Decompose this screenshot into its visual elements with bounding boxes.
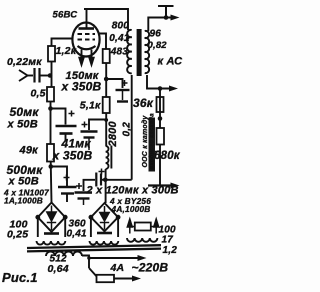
arrow mains 2 — [132, 276, 141, 282]
wire NFB arrow line — [148, 184, 174, 186]
resistor screen top — [103, 49, 110, 63]
node return junction — [158, 86, 163, 91]
capacitor 50мк bottom stub — [65, 135, 67, 142]
capacitor 150мк plate — [116, 89, 130, 91]
power transformer core — [27, 245, 161, 251]
svg-text:0,82: 0,82 — [148, 40, 168, 51]
capacitor 120мк A bottom stub — [83, 200, 85, 206]
svg-text:4А,1000В: 4А,1000В — [111, 204, 151, 214]
wire 5,1к to choke — [105, 113, 107, 146]
svg-text:х 350В: х 350В — [61, 80, 102, 94]
capacitor 41мк plates — [81, 130, 98, 132]
node 50мк junction — [48, 106, 53, 111]
resistor 1,2к — [48, 46, 55, 62]
tube anode bar — [79, 27, 95, 30]
svg-text:ООС к катоду: ООС к катоду — [141, 115, 149, 168]
svg-text:х 50В: х 50В — [7, 119, 38, 131]
bridge rectifier D1 diamond — [38, 203, 65, 232]
capacitor 41мк plus — [82, 122, 88, 128]
tube grid 2 dashes — [78, 39, 96, 41]
svg-text:0,25: 0,25 — [7, 229, 28, 241]
output transformer core — [137, 29, 142, 76]
bridge2 left lead — [90, 217, 92, 237]
svg-text:50мк: 50мк — [10, 105, 40, 119]
tube heater arrow left — [79, 56, 84, 66]
arrow to speaker — [171, 15, 180, 21]
node input junction — [48, 73, 53, 78]
tube heater lead left — [81, 50, 83, 60]
bridge2 minus bar — [97, 232, 112, 235]
hum balance resistor — [130, 226, 156, 228]
node bridge2 left — [89, 215, 94, 220]
wire junction to 41мк cap — [89, 120, 106, 131]
node mains junction — [87, 256, 91, 260]
wire choke to PS junction — [105, 169, 107, 203]
svg-text:17: 17 — [162, 235, 174, 246]
wire 120мк B right lead — [102, 179, 106, 181]
capacitor 150мк plus — [122, 80, 128, 86]
node PS junction — [103, 178, 108, 183]
tube heater arrow right — [89, 56, 94, 66]
svg-text:~220В: ~220В — [132, 261, 169, 275]
arrow mains 1 — [138, 255, 147, 261]
wire resistor to input junction — [51, 62, 53, 88]
wire junction to 50мк cap — [51, 109, 66, 125]
node bridge1 left — [35, 215, 40, 220]
wire 49к to bridge — [50, 162, 53, 203]
svg-text:0,64: 0,64 — [48, 263, 69, 275]
wire to 150мк junction — [105, 63, 107, 97]
capacitor 0,22мк plates — [33, 68, 35, 83]
fuse 4А — [97, 275, 115, 282]
capacitor 41мк bottom stub — [88, 139, 90, 151]
node NFB junction — [158, 116, 163, 121]
bridge1 right lead — [64, 217, 66, 237]
resistor 36к — [157, 97, 164, 112]
resistor 680к — [157, 128, 165, 145]
wire PS junction to B+ riser — [105, 179, 131, 181]
arrow speaker return — [169, 86, 178, 92]
capacitor 500мк plus — [64, 175, 70, 181]
label входного каскада band — [149, 118, 156, 172]
wire NFB tick — [154, 151, 161, 153]
tube cathode arc — [78, 46, 96, 49]
wire mains line 1 — [89, 257, 140, 259]
capacitor 50мк plates — [56, 125, 77, 128]
svg-text:5,1к: 5,1к — [80, 100, 101, 112]
wire tube screen to resistor — [99, 34, 106, 50]
capacitor 500мк bottom stub — [66, 195, 68, 203]
choke core line — [110, 146, 112, 169]
svg-text:483: 483 — [110, 47, 129, 58]
svg-text:36к: 36к — [133, 96, 154, 110]
wire cap to junction — [41, 75, 52, 77]
arrow NFB out — [171, 183, 180, 189]
capacitor 120мк B plus — [99, 169, 105, 175]
svg-text:49к: 49к — [19, 145, 40, 157]
tube grid 1 dashes — [78, 33, 96, 35]
heater winding W3 — [127, 238, 157, 242]
capacitor 500мк plates — [58, 186, 77, 188]
primary winding 512 — [46, 252, 82, 257]
svg-text:800: 800 — [112, 21, 130, 32]
svg-text:х 350В: х 350В — [52, 149, 93, 163]
wire 36к to 680к — [159, 89, 161, 129]
wire grid to resistor — [52, 39, 73, 47]
wire 120мк A top lead — [84, 180, 96, 191]
wire 0,5 down — [50, 102, 52, 145]
heater lead left arrow — [127, 219, 132, 234]
wire secondary top to output — [148, 18, 172, 32]
bridge1 left lead — [37, 217, 39, 237]
svg-text:1,2к: 1,2к — [56, 45, 77, 57]
output transformer secondary winding — [145, 31, 149, 73]
capacitor 120мк B plates — [95, 173, 97, 187]
resistor 5,1к — [103, 97, 110, 113]
power transformer T2 winding W1 — [37, 241, 66, 245]
wire 680к down to NFB arrow — [159, 145, 161, 186]
wire top rail anode to transformer — [84, 9, 128, 30]
output transformer T1 primary winding — [127, 30, 132, 73]
svg-text:56ВС: 56ВС — [53, 10, 78, 21]
svg-text:х 50В: х 50В — [8, 176, 39, 188]
capacitor 150мк bottom bar — [117, 100, 128, 102]
tube heater lead right — [91, 50, 93, 60]
capacitor 120мк A plus — [76, 183, 82, 189]
capacitor 120мк A plates — [75, 191, 93, 193]
svg-text:96: 96 — [150, 29, 162, 40]
wire B+ riser — [131, 75, 133, 180]
wire primary right lead — [82, 256, 89, 269]
bridge rectifier D2 diamond — [91, 203, 118, 231]
wire junction to 150мк cap — [106, 79, 122, 88]
tube V1 56ВС envelope — [72, 23, 99, 57]
svg-text:Рис.1: Рис.1 — [2, 270, 38, 285]
node 41мк junction — [104, 118, 108, 122]
wire mains line 2 — [99, 278, 135, 280]
node bridge1 right — [63, 215, 68, 220]
svg-text:0,22мк: 0,22мк — [7, 56, 42, 68]
svg-text:к АС: к АС — [158, 56, 184, 68]
bridge1 minus bar — [44, 232, 59, 235]
switch blade — [89, 268, 99, 279]
svg-text:входного каскада: входного каскада — [150, 113, 156, 170]
svg-text:0,5: 0,5 — [31, 88, 46, 100]
diode D1 symbol — [47, 206, 56, 231]
svg-text:1А,1000В: 1А,1000В — [4, 196, 43, 206]
capacitor 150мк lower lead — [122, 91, 124, 100]
bridge2 right lead — [117, 217, 119, 237]
power transformer winding W2 — [90, 241, 119, 245]
resistor 49к — [47, 144, 54, 162]
svg-text:0,41: 0,41 — [109, 33, 130, 44]
svg-text:2 х 120мк х 300В: 2 х 120мк х 300В — [86, 185, 179, 197]
heater lead right arrow — [154, 219, 159, 234]
svg-text:0,41: 0,41 — [67, 229, 88, 240]
choke L1 winding — [106, 146, 109, 169]
svg-text:4А: 4А — [110, 262, 125, 274]
wire secondary bottom return — [147, 75, 171, 89]
svg-text:2800: 2800 — [107, 121, 119, 148]
diode D2 symbol — [100, 206, 109, 230]
node 150мк junction — [104, 77, 109, 82]
svg-text:1,2: 1,2 — [163, 245, 178, 256]
resistor 0,5 — [47, 87, 54, 102]
input terminal chevron — [19, 70, 28, 81]
node output junction — [164, 15, 169, 20]
wire junction to 500мк cap — [51, 167, 67, 187]
output terminal bar — [158, 6, 174, 18]
node 500мк junction — [49, 164, 54, 169]
capacitor 50мк plus — [69, 111, 75, 117]
node bridge2 right — [116, 215, 121, 220]
wire input to cap — [26, 75, 33, 77]
tube anode lead — [86, 9, 88, 28]
